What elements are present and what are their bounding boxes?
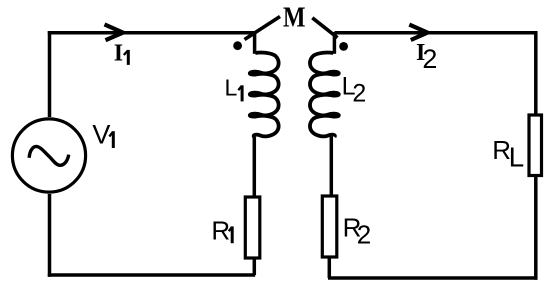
svg-text:I: I bbox=[114, 41, 123, 67]
svg-text:2: 2 bbox=[357, 220, 371, 250]
svg-text:M: M bbox=[283, 2, 306, 33]
svg-text:2: 2 bbox=[422, 44, 437, 74]
svg-text:R: R bbox=[211, 215, 230, 245]
svg-text:V: V bbox=[92, 120, 110, 150]
svg-text:L: L bbox=[509, 142, 525, 173]
svg-text:L: L bbox=[225, 74, 238, 100]
svg-text:2: 2 bbox=[352, 79, 366, 107]
